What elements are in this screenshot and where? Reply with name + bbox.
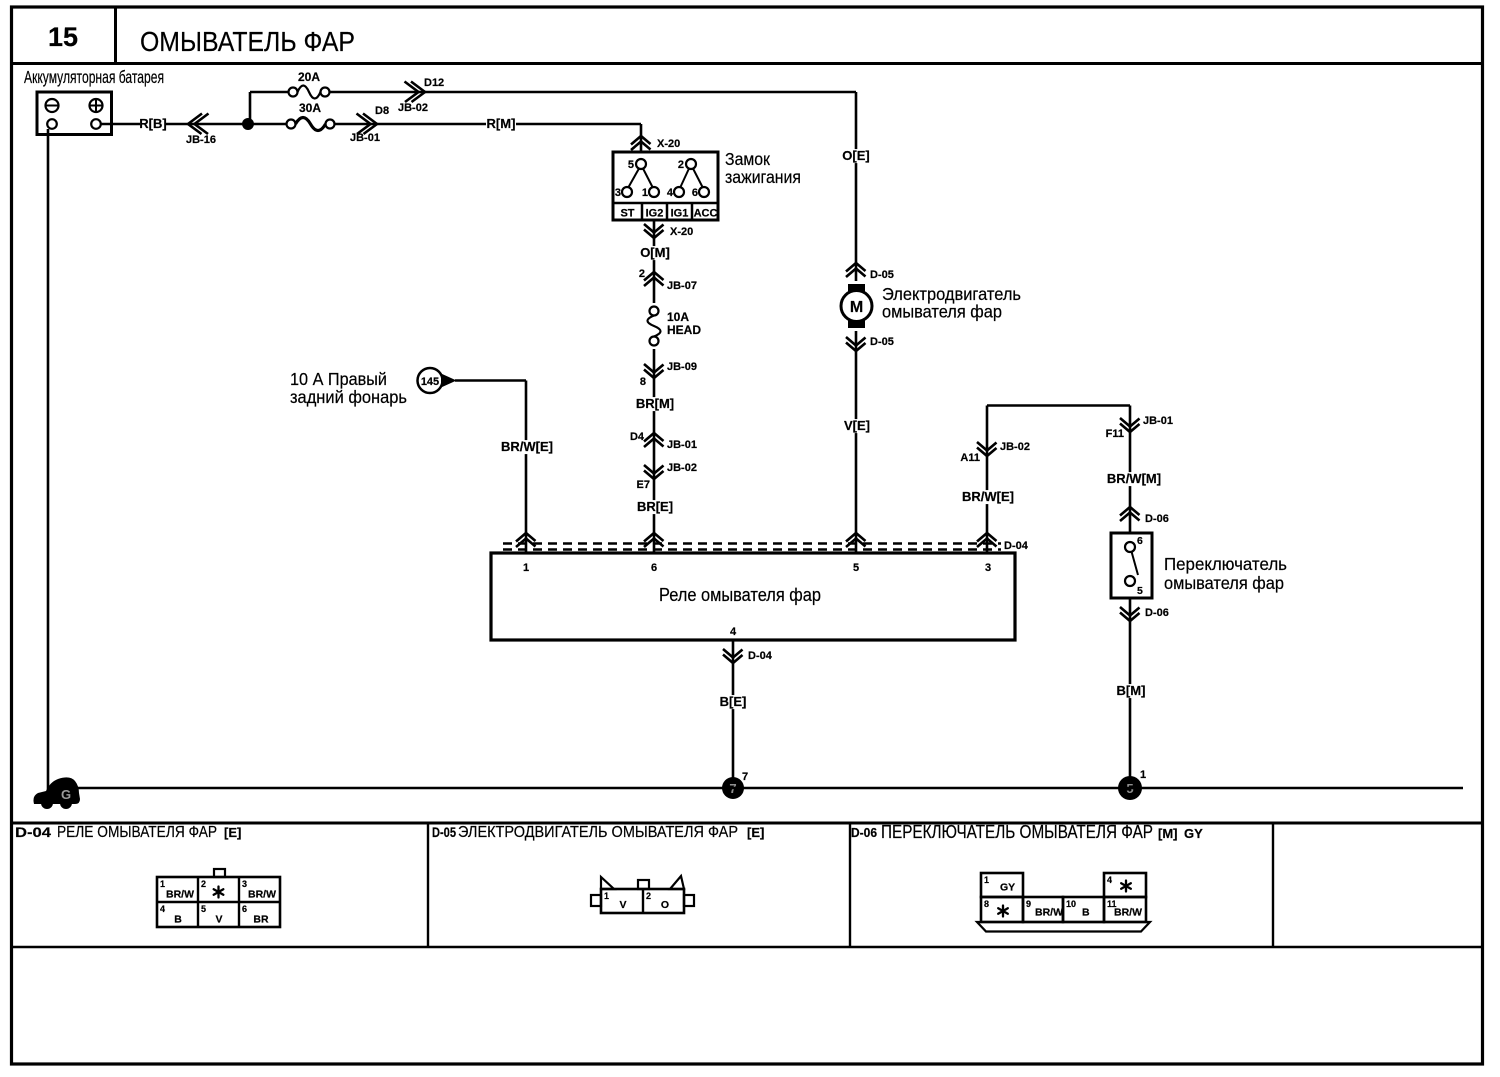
fuse 10A HEAD	[648, 303, 661, 349]
svg-text:4: 4	[160, 904, 165, 914]
svg-text:ACC: ACC	[694, 208, 718, 220]
svg-text:V: V	[619, 899, 626, 911]
svg-text:D-06: D-06	[1145, 513, 1169, 525]
wire 30A to ignition switch corner	[335, 123, 642, 126]
connector JB-01 F11	[1120, 418, 1140, 432]
svg-text:O: O	[661, 899, 669, 911]
svg-text:BR/W: BR/W	[166, 889, 194, 901]
svg-text:D-05: D-05	[870, 336, 894, 348]
svg-text:145: 145	[421, 376, 439, 388]
svg-text:HEAD: HEAD	[667, 323, 701, 337]
svg-text:[E]: [E]	[747, 825, 764, 840]
svg-text:BR/W[E]: BR/W[E]	[501, 439, 553, 454]
connector D-04 relay pin 6	[644, 533, 664, 547]
wire label BR/W[M]	[1106, 472, 1162, 486]
wire label B[E]	[719, 695, 747, 709]
svg-text:[M]: [M]	[1158, 826, 1178, 841]
svg-text:IG2: IG2	[646, 208, 664, 220]
washer switch box	[1111, 533, 1152, 598]
connector drawing D-04	[214, 869, 225, 877]
svg-text:D-04: D-04	[748, 650, 773, 662]
svg-text:3: 3	[615, 187, 621, 199]
wire label BR/W[E] left	[501, 440, 553, 454]
wire label BR[M]	[636, 397, 674, 411]
svg-text:20A: 20A	[298, 70, 320, 84]
svg-text:10A: 10A	[667, 310, 689, 324]
svg-text:BR[E]: BR[E]	[637, 499, 673, 514]
wire 20A to corner	[330, 91, 857, 94]
svg-text:15: 15	[48, 22, 78, 52]
svg-text:B: B	[174, 914, 182, 926]
wire 20A branch down to motor	[855, 92, 858, 553]
wire junction to 20A branch	[249, 92, 252, 124]
connector D12 JB-02	[405, 82, 426, 103]
svg-text:зажигания: зажигания	[725, 167, 801, 187]
svg-text:D-04: D-04	[1004, 540, 1029, 552]
connector D-06 top	[1120, 507, 1140, 521]
svg-text:IG1: IG1	[671, 208, 689, 220]
svg-text:GY: GY	[1000, 882, 1015, 894]
connector D-05 bottom	[846, 337, 866, 351]
svg-text:JB-16: JB-16	[186, 134, 216, 146]
svg-text:D4: D4	[630, 431, 645, 443]
wire A11 down to relay pin 3	[986, 406, 989, 554]
wire battery minus to ground	[47, 129, 50, 792]
svg-text:РЕЛЕ ОМЫВАТЕЛЯ ФАР: РЕЛЕ ОМЫВАТЕЛЯ ФАР	[57, 824, 217, 841]
node 145	[418, 368, 443, 393]
wire label O[E]	[842, 149, 870, 163]
ground bus wire	[66, 787, 1463, 789]
svg-text:V: V	[215, 914, 222, 926]
wire label B[M]	[1116, 684, 1146, 698]
wire label O[M]	[640, 246, 670, 260]
svg-text:10 А Правый: 10 А Правый	[290, 369, 387, 389]
svg-text:X-20: X-20	[670, 226, 693, 238]
motor M washer	[846, 281, 867, 331]
svg-text:[E]: [E]	[224, 825, 241, 840]
connector D-04 relay pin 5	[846, 533, 866, 547]
svg-text:5: 5	[853, 562, 859, 574]
svg-text:D12: D12	[424, 77, 444, 89]
svg-text:ЭЛЕКТРОДВИГАТЕЛЬ ОМЫВАТЕЛЯ ФАР: ЭЛЕКТРОДВИГАТЕЛЬ ОМЫВАТЕЛЯ ФАР	[458, 824, 738, 841]
wire label V[E]	[843, 419, 871, 433]
fuse 30A	[287, 120, 296, 129]
svg-text:JB-02: JB-02	[667, 462, 697, 474]
connector JB-07	[644, 272, 664, 286]
wire label R[M]	[486, 118, 516, 131]
wire B[E] to ground	[732, 640, 735, 780]
svg-text:JB-01: JB-01	[350, 132, 380, 144]
connector drawing D-05	[638, 880, 649, 889]
svg-text:X-20: X-20	[657, 138, 680, 150]
connector D-04 relay pin 1	[516, 533, 536, 547]
svg-text:Аккумуляторная батарея: Аккумуляторная батарея	[24, 67, 164, 87]
battery	[37, 92, 112, 135]
svg-text:D-05: D-05	[870, 269, 894, 281]
svg-text:2: 2	[201, 879, 206, 889]
svg-text:V[E]: V[E]	[844, 418, 870, 433]
svg-text:1: 1	[523, 562, 529, 574]
connector X-20 bottom	[644, 224, 664, 238]
svg-text:9: 9	[1026, 899, 1031, 909]
ignition switch label row	[613, 202, 718, 205]
svg-text:1: 1	[160, 879, 165, 889]
svg-text:1: 1	[1140, 769, 1146, 781]
connector line D-04 dashed	[503, 542, 1001, 544]
relay washer box	[491, 553, 1015, 640]
wire label R[B]	[140, 118, 166, 131]
svg-text:5: 5	[201, 904, 206, 914]
svg-text:R[M]: R[M]	[487, 116, 516, 131]
svg-text:GY: GY	[1184, 826, 1203, 841]
svg-text:1: 1	[642, 187, 648, 199]
svg-text:G: G	[61, 787, 71, 802]
svg-text:B[M]: B[M]	[1117, 683, 1146, 698]
svg-text:D-06: D-06	[1145, 607, 1169, 619]
svg-text:ST: ST	[620, 208, 634, 220]
connector X-20 top	[631, 136, 651, 150]
ignition switch box	[613, 152, 718, 220]
svg-text:BR/W: BR/W	[248, 889, 276, 901]
connector D-04 relay pin 4	[723, 649, 743, 663]
svg-text:JB-01: JB-01	[667, 439, 697, 451]
svg-text:BR/W: BR/W	[1114, 907, 1142, 919]
svg-text:JB-02: JB-02	[1000, 441, 1030, 453]
svg-text:7: 7	[742, 771, 748, 783]
svg-text:1: 1	[604, 891, 609, 901]
svg-text:D8: D8	[375, 105, 389, 117]
svg-text:Замок: Замок	[725, 149, 770, 169]
svg-text:1: 1	[984, 875, 989, 885]
connector JB-02 A11	[977, 442, 997, 456]
svg-text:омывателя фар: омывателя фар	[1164, 573, 1284, 593]
connector D-06 bottom	[1120, 607, 1140, 621]
junction node	[242, 118, 254, 130]
svg-text:D-05: D-05	[432, 825, 456, 840]
svg-text:3: 3	[985, 562, 991, 574]
svg-text:2: 2	[646, 891, 651, 901]
svg-text:F11: F11	[1106, 428, 1124, 440]
wire label BR[E]	[637, 500, 673, 514]
svg-text:4: 4	[1107, 875, 1112, 885]
ignition switch contacts	[636, 159, 646, 169]
svg-text:JB-09: JB-09	[667, 361, 697, 373]
svg-text:8: 8	[984, 899, 989, 909]
svg-text:Переключатель: Переключатель	[1164, 554, 1287, 574]
svg-text:Реле омывателя фар: Реле омывателя фар	[659, 585, 821, 605]
svg-text:6: 6	[692, 187, 698, 199]
ground node 7	[722, 777, 744, 799]
connector JB-16	[188, 114, 209, 135]
connector JB-09	[644, 364, 664, 378]
washer switch contacts	[1125, 542, 1135, 552]
wire top link A11-F11	[987, 404, 1130, 407]
connector drawing D-06	[977, 922, 1150, 932]
svg-text:JB-07: JB-07	[667, 280, 697, 292]
svg-text:4: 4	[730, 626, 737, 638]
svg-text:O[E]: O[E]	[842, 148, 869, 163]
svg-text:3: 3	[242, 879, 247, 889]
svg-text:D-04: D-04	[15, 825, 52, 840]
svg-text:B[E]: B[E]	[720, 694, 747, 709]
svg-text:2: 2	[678, 159, 684, 171]
svg-text:6: 6	[651, 562, 657, 574]
svg-text:B: B	[1082, 907, 1090, 919]
connector JB-02 E7	[644, 465, 664, 479]
wire 145 to relay pin 1	[455, 379, 526, 382]
ground node 5	[1118, 776, 1142, 800]
svg-text:E7: E7	[637, 479, 650, 491]
svg-text:BR: BR	[253, 914, 269, 926]
svg-text:BR/W: BR/W	[1035, 907, 1063, 919]
svg-text:JB-01: JB-01	[1143, 415, 1173, 427]
svg-text:омывателя фар: омывателя фар	[882, 302, 1002, 322]
svg-text:BR[M]: BR[M]	[636, 396, 674, 411]
svg-text:ПЕРЕКЛЮЧАТЕЛЬ ОМЫВАТЕЛЯ ФАР: ПЕРЕКЛЮЧАТЕЛЬ ОМЫВАТЕЛЯ ФАР	[881, 822, 1153, 842]
svg-text:BR/W[M]: BR/W[M]	[1107, 471, 1161, 486]
ground car symbol	[34, 777, 81, 804]
svg-text:8: 8	[640, 376, 646, 388]
wire label BR/W[E] right	[962, 490, 1014, 504]
svg-text:2: 2	[639, 268, 645, 280]
svg-text:BR/W[E]: BR/W[E]	[962, 489, 1014, 504]
wire R[B] battery to junction	[101, 123, 142, 126]
svg-text:A11: A11	[960, 452, 980, 464]
svg-text:задний фонарь: задний фонарь	[290, 387, 407, 407]
wire F11 down to washer switch	[1129, 406, 1132, 534]
svg-text:O[M]: O[M]	[640, 245, 670, 260]
connector D-05 top	[846, 263, 866, 277]
svg-text:6: 6	[1137, 535, 1143, 547]
svg-text:JB-02: JB-02	[398, 102, 428, 114]
connector JB-01 D4	[644, 433, 664, 447]
svg-text:30A: 30A	[299, 101, 321, 115]
wire B[M] to ground	[1129, 598, 1132, 780]
svg-text:10: 10	[1066, 899, 1076, 909]
svg-text:4: 4	[667, 187, 674, 199]
svg-text:D-06: D-06	[851, 825, 877, 840]
connector D-04 relay pin 3	[977, 533, 997, 547]
wire IG2 down	[653, 220, 656, 553]
svg-text:5: 5	[1137, 585, 1143, 597]
svg-text:6: 6	[242, 904, 247, 914]
fuse 20A	[289, 88, 298, 97]
connector D8 JB-01	[357, 114, 378, 135]
svg-text:R[B]: R[B]	[139, 116, 166, 131]
svg-text:ОМЫВАТЕЛЬ ФАР: ОМЫВАТЕЛЬ ФАР	[140, 26, 355, 57]
svg-text:5: 5	[628, 159, 634, 171]
svg-text:M: M	[850, 299, 863, 316]
